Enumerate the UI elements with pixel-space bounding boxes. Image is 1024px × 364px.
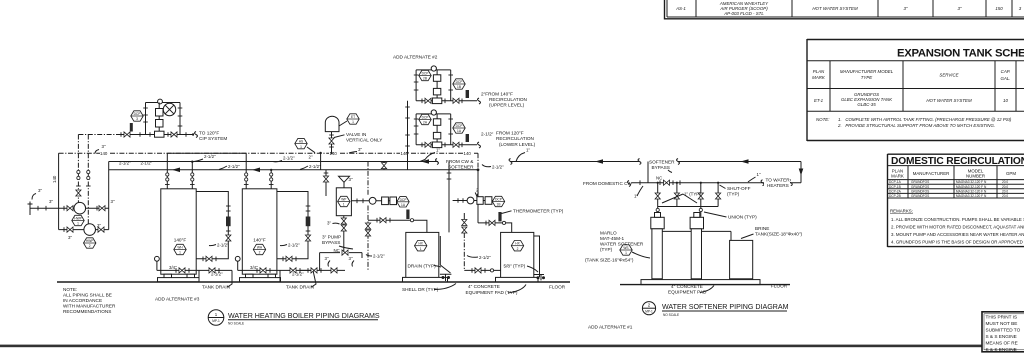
svg-text:AP-003 FLGD - STL: AP-003 FLGD - STL: [723, 11, 764, 16]
hexagon tag DCP-3: [131, 111, 143, 121]
svg-text:2-1/2": 2-1/2": [141, 161, 153, 166]
drain run tank2: [238, 270, 313, 282]
svg-text:DCP: DCP: [134, 112, 141, 116]
riser fittings x407.5: [405, 106, 410, 108]
softener tank 2 head: [690, 217, 703, 229]
svg-text:RECIRCULATION: RECIRCULATION: [496, 136, 534, 141]
svg-text:3": 3": [68, 235, 72, 240]
svg-text:SHUT-OFF: SHUT-OFF: [727, 186, 751, 191]
svg-text:2-1/2": 2-1/2": [119, 161, 131, 166]
svg-text:1. ALL BRONZE CONSTRUCTION. PU: 1. ALL BRONZE CONSTRUCTION. PUMPS SHALL …: [891, 217, 1024, 222]
svg-text:WS: WS: [623, 246, 628, 250]
svg-text:DOMESTIC RECIRCULATION: DOMESTIC RECIRCULATION: [891, 156, 1024, 167]
svg-text:3": 3": [349, 256, 353, 261]
svg-text:SERVICE: SERVICE: [939, 73, 958, 78]
tank B shell drain right: [534, 236, 544, 280]
svg-text:(TYP): (TYP): [600, 247, 613, 252]
svg-text:3": 3": [349, 177, 353, 182]
svg-text:1": 1": [757, 172, 761, 177]
svg-text:GRUNDFOS: GRUNDFOS: [911, 185, 929, 189]
softener bypass loop: [648, 162, 801, 183]
svg-text:FROM 120°F: FROM 120°F: [496, 131, 524, 136]
svg-text:TANK DRAIN: TANK DRAIN: [202, 285, 230, 290]
main hot water supply pipe y161.5: [109, 161, 801, 163]
riser from 140 line to recirc assemblies x407.5: [407, 101, 409, 170]
hexagon tag tank B: [511, 241, 523, 251]
center squares: [433, 119, 440, 126]
svg-text:GPM: GPM: [1006, 171, 1016, 176]
svg-text:3/4": 3/4": [169, 265, 177, 270]
svg-text:3": 3": [111, 199, 115, 204]
svg-text:1": 1": [436, 148, 440, 153]
svg-text:HWP: HWP: [86, 239, 93, 243]
break: [478, 142, 481, 148]
svg-text:S & S ENGINE: S & S ENGINE: [986, 334, 1017, 339]
tank A pad: [403, 277, 448, 282]
svg-text:2. PROVIDE WITH MOTOR RATED DI: 2. PROVIDE WITH MOTOR RATED DISCONNECT, …: [891, 225, 1024, 230]
svg-text:UNION (TYP): UNION (TYP): [728, 215, 757, 220]
svg-text:2-1/2": 2-1/2": [481, 132, 494, 137]
rail fittings: [414, 74, 419, 76]
break: [478, 98, 481, 104]
svg-text:NC: NC: [656, 176, 662, 181]
svg-text:20.0: 20.0: [1002, 189, 1008, 193]
svg-text:ADD ALTERNATE #2: ADD ALTERNATE #2: [393, 55, 438, 60]
svg-text:TANK(SIZE-18"Φx40"): TANK(SIZE-18"Φx40"): [755, 232, 803, 237]
left rail fittings: [143, 107, 148, 109]
svg-text:FROM DOMESTIC CW: FROM DOMESTIC CW: [583, 181, 633, 186]
cip pump circle: [163, 103, 175, 115]
svg-text:1: 1: [625, 251, 627, 255]
svg-text:MUST NOT BE: MUST NOT BE: [986, 321, 1018, 326]
svg-text:1: 1: [300, 145, 302, 149]
svg-text:VERTICAL ONLY: VERTICAL ONLY: [346, 138, 383, 143]
unions on risers: [656, 208, 659, 211]
svg-text:3": 3": [49, 199, 53, 204]
hexagon tag WS: [620, 245, 632, 255]
outlet breaks and label TO WATER HEATERS: [761, 180, 792, 186]
hexagon tag HWP-2: [84, 238, 96, 248]
svg-text:PLAN: PLAN: [813, 69, 825, 74]
pump HWP-1: [74, 202, 86, 214]
shutoff valves on risers: [655, 193, 660, 199]
svg-text:2-1/2": 2-1/2": [479, 255, 491, 260]
140 recirculation line (dash-dot) y153.2: [59, 152, 478, 154]
svg-text:MARK: MARK: [812, 75, 826, 80]
svg-text:1": 1": [526, 148, 530, 153]
hexagon tag WP-1: [338, 196, 350, 206]
svg-text:3/4": 3/4": [250, 265, 258, 270]
svg-text:NO SCALE: NO SCALE: [228, 322, 244, 326]
gauge P: [431, 110, 436, 115]
svg-text:RECOMMENDATIONS: RECOMMENDATIONS: [63, 309, 111, 314]
svg-text:150: 150: [995, 6, 1003, 11]
svg-text:TO 120°F: TO 120°F: [199, 130, 219, 135]
svg-text:2": 2": [309, 155, 313, 160]
svg-text:5/8" (TYP): 5/8" (TYP): [504, 264, 526, 269]
svg-text:GLBC-35: GLBC-35: [857, 102, 876, 107]
svg-text:20.0: 20.0: [1002, 194, 1008, 198]
down arrow on bypass drop: [799, 169, 804, 176]
svg-text:2-1/2": 2-1/2": [228, 164, 240, 169]
svg-text:3": 3": [903, 6, 907, 11]
svg-text:1: 1: [420, 247, 422, 251]
svg-text:S & S ENGINE: S & S ENGINE: [986, 347, 1017, 352]
svg-text:DCP-1B: DCP-1B: [889, 185, 901, 189]
svg-text:NUMBER: NUMBER: [966, 174, 985, 179]
flex connector bar: [130, 123, 133, 132]
svg-text:MANUFACTURER MODEL: MANUFACTURER MODEL: [840, 69, 894, 74]
svg-text:SOFTENER: SOFTENER: [448, 165, 474, 170]
140 line corner down to CW junction x478: [477, 153, 479, 170]
tank WH-1 pad: [158, 278, 200, 282]
svg-text:FLOOR: FLOOR: [549, 285, 566, 290]
svg-text:CIP SYSTEM: CIP SYSTEM: [199, 136, 227, 141]
svg-text:2. PROVIDE STRUCTURAL SUPPOR: 2. PROVIDE STRUCTURAL SUPPORT FROM ABOVE…: [837, 123, 995, 128]
line into tank B: [478, 223, 512, 233]
svg-text:1: 1: [352, 120, 354, 124]
svg-text:VALVE IN: VALVE IN: [346, 132, 366, 137]
softener floor line: [620, 284, 790, 286]
svg-text:SOFTENER: SOFTENER: [649, 160, 675, 165]
svg-text:MARLO: MARLO: [600, 231, 617, 236]
svg-text:MAGNA3 32-120 F N: MAGNA3 32-120 F N: [956, 189, 987, 193]
svg-text:RECIRCULATION: RECIRCULATION: [489, 97, 527, 102]
hexagon tag WH-2: [253, 244, 265, 254]
boiler room floor line: [57, 281, 570, 283]
tank B drain run left: [464, 269, 500, 271]
svg-text:THIS PRINT IS: THIS PRINT IS: [986, 315, 1018, 320]
pump HWP-1 line: [59, 207, 109, 209]
svg-text:ALL PIPING SHALL BE: ALL PIPING SHALL BE: [63, 293, 112, 298]
hexagon tag tank A: [415, 241, 427, 251]
svg-text:2: 2: [517, 247, 519, 251]
svg-text:DCP: DCP: [422, 116, 429, 120]
rail fittings: [414, 118, 419, 120]
svg-text:140°F: 140°F: [174, 238, 187, 243]
drop pipe with valve: [331, 132, 333, 153]
svg-text:3": 3": [38, 188, 42, 193]
svg-text:(UPPER LEVEL): (UPPER LEVEL): [489, 103, 525, 108]
svg-text:2-1/2": 2-1/2": [217, 243, 229, 248]
flex connector: [226, 217, 231, 227]
svg-text:WH: WH: [257, 246, 263, 250]
thermometer line into tank A: [368, 220, 427, 232]
svg-text:IN ACCORDANCE: IN ACCORDANCE: [63, 298, 102, 303]
svg-text:NOTE:: NOTE:: [63, 287, 77, 292]
svg-text:2-1/2": 2-1/2": [288, 243, 300, 248]
svg-text:3": 3": [957, 6, 961, 11]
svg-text:(LOWER LEVEL): (LOWER LEVEL): [499, 142, 536, 147]
svg-text:NOTE:: NOTE:: [816, 117, 830, 122]
svg-text:NO SCALE: NO SCALE: [663, 313, 679, 317]
svg-text:140: 140: [464, 151, 472, 156]
drain run tank1: [157, 270, 232, 282]
tie line: [658, 206, 718, 208]
svg-text:EXPANSION TANK SCHEDULE: EXPANSION TANK SCHEDULE: [897, 48, 1024, 60]
svg-text:GRUNDFOS: GRUNDFOS: [911, 180, 929, 184]
boiler diagram title bubble: [208, 310, 224, 326]
capped 3" stub: [28, 202, 59, 216]
svg-text:WITH MANUFACTURER: WITH MANUFACTURER: [63, 304, 116, 309]
svg-text:GRUNDFOS: GRUNDFOS: [911, 194, 929, 198]
svg-text:REMARKS:: REMARKS:: [890, 209, 913, 214]
svg-text:AS: AS: [299, 140, 303, 144]
tank WH-2 feet: [246, 274, 254, 281]
svg-text:DRAIN (TYP): DRAIN (TYP): [408, 264, 437, 269]
svg-text:GAL.: GAL.: [1000, 76, 1010, 81]
P gauge circle: [158, 99, 163, 104]
svg-text:WATER SOFTENER PIPING DIAGRAM: WATER SOFTENER PIPING DIAGRAM: [662, 303, 789, 311]
outlet with break to CIP system: [186, 134, 193, 136]
svg-text:20.0: 20.0: [1002, 180, 1008, 184]
svg-text:3": 3": [358, 147, 362, 152]
svg-text:1: 1: [77, 222, 79, 226]
tank WH-1 feet: [164, 274, 172, 281]
svg-text:MANUFACTURER: MANUFACTURER: [913, 171, 950, 176]
svg-text:ET: ET: [351, 115, 355, 119]
svg-text:DCP: DCP: [456, 124, 463, 128]
bypass left arrow: [741, 159, 749, 164]
svg-text:140°F: 140°F: [253, 238, 266, 243]
drain valve WH2: [235, 256, 240, 261]
svg-text:ET-1: ET-1: [814, 98, 824, 103]
svg-text:2-1/2": 2-1/2": [309, 164, 321, 169]
svg-text:3. MOUNT PUMP AND ACCESSORIES: 3. MOUNT PUMP AND ACCESSORIES NEAR WATER…: [891, 232, 1024, 237]
flex connector: [466, 90, 469, 98]
fittings on cip bottom line: [120, 132, 122, 137]
svg-text:3": 3": [327, 221, 331, 226]
svg-text:2: 2: [89, 244, 91, 248]
svg-text:MP-1: MP-1: [212, 319, 220, 323]
svg-text:1. COMPLETE WITH AIRTROL TAN: 1. COMPLETE WITH AIRTROL TANK FITTING. (…: [838, 117, 1012, 122]
svg-text:WH: WH: [177, 246, 183, 250]
svg-text:4. GRUNDFOS PUMP IS THE BASIS: 4. GRUNDFOS PUMP IS THE BASIS OF DESIGN …: [891, 240, 1024, 245]
svg-text:1: 1: [179, 251, 181, 255]
svg-text:10: 10: [1003, 98, 1008, 103]
svg-text:GRUNDFOS: GRUNDFOS: [911, 189, 929, 193]
svg-text:MAGNA3 32-120 F N: MAGNA3 32-120 F N: [956, 180, 987, 184]
brine interconnect line: [662, 231, 731, 240]
svg-text:2: 2: [259, 251, 261, 255]
svg-text:DCP: DCP: [422, 72, 429, 76]
svg-text:THERMOMETER (TYP): THERMOMETER (TYP): [513, 209, 564, 214]
svg-text:MAT-45M-1: MAT-45M-1: [600, 236, 625, 241]
suction fittings pump1: [63, 206, 65, 211]
gauge P: [431, 66, 436, 71]
svg-text:TYPE: TYPE: [861, 75, 873, 80]
center squares: [433, 75, 440, 82]
pipe break marks on supply: [436, 159, 680, 165]
svg-text:140: 140: [100, 151, 108, 156]
left riser x58.6: [58, 153, 60, 229]
svg-text:AS-1: AS-1: [675, 6, 686, 11]
svg-text:4" CONCRETE: 4" CONCRETE: [671, 284, 703, 289]
cw drop (dash) to drain x368: [367, 162, 369, 271]
svg-text:HOT WATER SYSTEM: HOT WATER SYSTEM: [926, 98, 972, 103]
softener tank 1 column: [652, 229, 662, 279]
svg-text:BRINE: BRINE: [755, 226, 769, 231]
svg-text:2-1/2": 2-1/2": [204, 154, 216, 159]
svg-text:ADD ALTERNATE #3: ADD ALTERNATE #3: [155, 297, 200, 302]
svg-text:1: 1: [343, 203, 345, 207]
svg-text:20.0: 20.0: [1002, 185, 1008, 189]
hexagon tag ET-1: [347, 114, 359, 124]
svg-text:4" CONCRETE: 4" CONCRETE: [468, 284, 500, 289]
svg-text:2"FROM 140°F: 2"FROM 140°F: [481, 92, 513, 97]
svg-text:DCP: DCP: [495, 198, 502, 202]
tank A inlet riser from manifold: [448, 162, 450, 233]
svg-text:MARK: MARK: [891, 174, 904, 179]
svg-text:1B: 1B: [497, 203, 501, 207]
svg-text:BYPASS: BYPASS: [322, 240, 340, 245]
svg-text:MAGNA3 32-120 F N: MAGNA3 32-120 F N: [956, 194, 987, 198]
loop piping: [416, 114, 477, 145]
svg-text:CAP.: CAP.: [1001, 69, 1011, 74]
svg-text:WP: WP: [341, 198, 346, 202]
cw drop x478 down to group: [477, 170, 479, 223]
svg-text:SUBMITTED TO: SUBMITTED TO: [986, 328, 1021, 333]
softener equipment pad: [641, 280, 760, 285]
svg-text:DCP-1A: DCP-1A: [889, 180, 902, 184]
svg-text:(TANK SIZE-16"Φx54"): (TANK SIZE-16"Φx54"): [585, 258, 634, 263]
pump HWP-2: [84, 224, 96, 236]
table outline: [807, 39, 1024, 141]
right riser x108.7: [108, 162, 110, 230]
svg-text:ADD ALTERNATE #1: ADD ALTERNATE #1: [588, 325, 633, 330]
svg-text:DCP-2B: DCP-2B: [889, 194, 901, 198]
fittings on drops: [77, 170, 80, 173]
flex connector: [306, 217, 311, 227]
pump HWP-2 line: [59, 229, 109, 231]
tank A shell drain: [440, 236, 452, 281]
cip loop piping: [116, 103, 194, 135]
flow arrow on supply: [421, 159, 429, 164]
svg-text:MAGNA3 32-120 F N: MAGNA3 32-120 F N: [956, 185, 987, 189]
svg-text:MEANS OF RE: MEANS OF RE: [986, 341, 1018, 346]
svg-text:3" PUMP: 3" PUMP: [322, 235, 341, 240]
pump bypass below: [343, 216, 345, 253]
hexagon tag: [492, 196, 504, 206]
svg-text:TO WATER: TO WATER: [766, 177, 791, 182]
svg-text:HWP: HWP: [74, 217, 81, 221]
secondary manifold y169.8: [109, 169, 478, 171]
softener risers: [658, 183, 718, 217]
hexagon tag DCP-1A: [453, 123, 465, 133]
funnel drain: [339, 176, 350, 188]
thermometer well: [406, 210, 409, 220]
svg-text:DCP: DCP: [400, 198, 407, 202]
center column fittings (squares): [156, 109, 164, 117]
flex connector: [466, 134, 469, 142]
tank B pad: [496, 277, 539, 282]
svg-text:2-1/2": 2-1/2": [283, 156, 295, 161]
hexagon tag WH-1: [174, 244, 186, 254]
svg-text:(TYP): (TYP): [727, 192, 740, 197]
svg-text:HEATERS: HEATERS: [767, 183, 789, 188]
brine tank: [730, 240, 753, 278]
svg-text:DCP-2A: DCP-2A: [889, 189, 902, 193]
svg-text:3": 3": [325, 256, 329, 261]
svg-text:MP-1: MP-1: [645, 310, 653, 314]
softener tank 1 head: [651, 217, 664, 229]
svg-text:1B: 1B: [457, 85, 461, 89]
junction dots: [406, 152, 408, 154]
tank WH-2 pad: [240, 278, 281, 282]
svg-text:WATER HEATING BOILER PIPING DI: WATER HEATING BOILER PIPING DIAGRAMS: [228, 312, 380, 320]
softener diagram title bubble: [642, 302, 655, 315]
valve jog between manifolds x384: [383, 162, 385, 170]
svg-text:SHELL DR (TYP): SHELL DR (TYP): [402, 287, 439, 292]
svg-text:TANK DRAIN: TANK DRAIN: [286, 285, 314, 290]
tank dome body: [325, 116, 339, 131]
suction fittings pump2: [63, 227, 65, 232]
thermometer well B: [498, 212, 501, 221]
svg-text:3": 3": [97, 223, 101, 228]
svg-text:2B: 2B: [423, 77, 427, 81]
table grid: [667, 0, 1024, 17]
svg-text:HOT WATER SYSTEM: HOT WATER SYSTEM: [812, 6, 858, 11]
svg-text:2-1/2": 2-1/2": [373, 254, 385, 259]
svg-text:DCP: DCP: [456, 80, 463, 84]
hexagon tag DCP-1B: [453, 79, 465, 89]
hexagon tag: [397, 197, 409, 207]
drop pipes from CIP return (dash-dot): [78, 135, 88, 224]
hexagon tag HWP-1: [72, 215, 84, 225]
loop piping: [416, 70, 477, 101]
softener tank 2 column: [691, 229, 701, 279]
drain valve WH1: [155, 256, 160, 261]
svg-text:2-1/2": 2-1/2": [492, 165, 504, 170]
svg-text:FROM CW &: FROM CW &: [446, 159, 474, 164]
cw inlet line: [628, 181, 802, 187]
svg-text:3": 3": [102, 144, 106, 149]
svg-text:FLOOR: FLOOR: [771, 284, 788, 289]
svg-text:2-1/2": 2-1/2": [292, 272, 304, 277]
sheet bottom border frame: [0, 345, 1024, 348]
hexagon tag DCP-2A: [419, 114, 431, 124]
svg-text:3: 3: [136, 117, 138, 121]
bypass drain to floor run: [300, 269, 345, 271]
svg-text:2-1/2": 2-1/2": [211, 272, 223, 277]
svg-text:140: 140: [52, 175, 57, 183]
hexagon tag DCP-2B: [419, 70, 431, 80]
svg-text:BYPASS: BYPASS: [652, 165, 670, 170]
